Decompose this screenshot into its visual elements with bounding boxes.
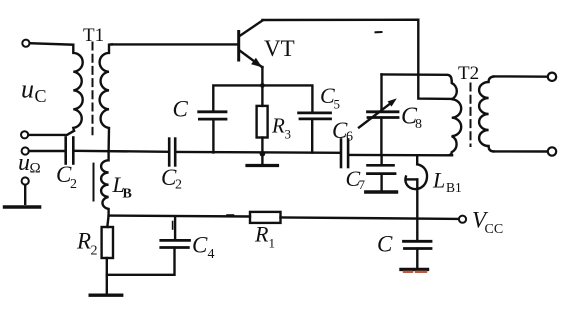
svg-text:6: 6 xyxy=(346,130,353,145)
svg-text:4: 4 xyxy=(208,247,215,262)
svg-text:2: 2 xyxy=(70,177,77,192)
svg-text:8: 8 xyxy=(415,117,422,132)
svg-text:R: R xyxy=(271,114,285,138)
svg-text:VT: VT xyxy=(264,36,295,61)
svg-text:2: 2 xyxy=(91,244,98,259)
svg-text:B1: B1 xyxy=(446,180,462,195)
svg-text:T2: T2 xyxy=(458,63,479,84)
svg-text:C: C xyxy=(192,233,208,258)
svg-text:L: L xyxy=(432,168,445,193)
svg-text:R: R xyxy=(254,222,269,247)
svg-text:u: u xyxy=(18,150,30,176)
svg-text:1: 1 xyxy=(269,236,276,251)
svg-text:T1: T1 xyxy=(83,25,104,46)
svg-text:u: u xyxy=(21,75,34,104)
svg-text:C: C xyxy=(35,86,47,106)
svg-text:3: 3 xyxy=(285,127,292,142)
svg-text:2: 2 xyxy=(175,178,182,193)
svg-text:C: C xyxy=(377,232,393,257)
svg-text:CC: CC xyxy=(485,222,504,237)
svg-text:C: C xyxy=(173,97,189,122)
svg-text:Ω: Ω xyxy=(30,161,41,177)
svg-text:5: 5 xyxy=(334,97,341,112)
svg-text:7: 7 xyxy=(359,177,366,192)
svg-text:R: R xyxy=(76,229,91,254)
svg-text:B: B xyxy=(123,187,132,202)
